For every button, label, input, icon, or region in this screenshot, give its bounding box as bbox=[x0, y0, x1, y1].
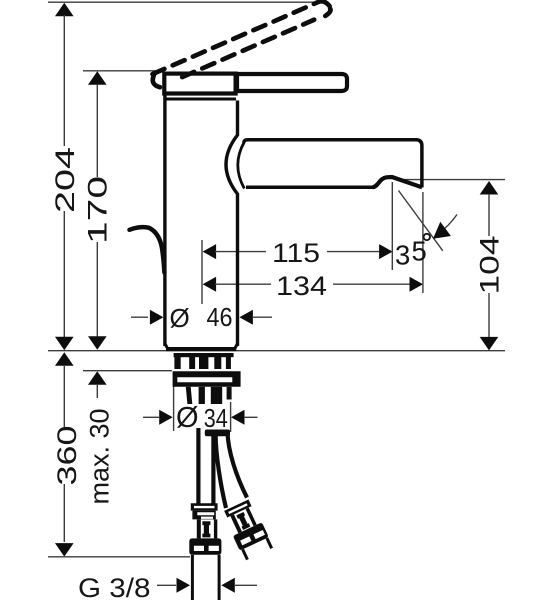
dimension diameter46 arrow right bbox=[239, 310, 253, 325]
base skirt bottom bbox=[166, 347, 236, 351]
angled fitting crimp I bbox=[236, 512, 250, 530]
dimension 115 arrow right bbox=[379, 244, 393, 259]
supply pipe stub 1 bbox=[186, 387, 193, 404]
dimension 204 arrow down bbox=[55, 337, 74, 351]
dimension 115 line left segment bbox=[215, 251, 266, 253]
dimension diameter46 tail left bbox=[131, 316, 148, 318]
angled hose fitting bbox=[222, 498, 274, 561]
hose fitting band B bbox=[192, 511, 215, 520]
vertical hose left edge bbox=[196, 428, 200, 504]
thread mark 3 bbox=[199, 357, 208, 369]
extension line 360 bottom bbox=[48, 556, 190, 558]
svg-text:134: 134 bbox=[276, 271, 327, 301]
dimension 115 line right segment bbox=[327, 251, 379, 253]
dimension 360 line lower segment bbox=[63, 484, 65, 542]
base skirt left bevel bbox=[165, 344, 168, 349]
threaded shank ring bbox=[174, 353, 234, 357]
extension line top bbox=[48, 1, 316, 3]
svg-text:Ø: Ø bbox=[170, 303, 190, 333]
aerator profile bbox=[373, 177, 423, 187]
dimension 204 line upper segment bbox=[63, 15, 65, 146]
dimension 360 line upper segment bbox=[63, 365, 65, 427]
dimension diameter34 arrow left bbox=[159, 410, 173, 425]
supply pipe stub 3 bbox=[211, 387, 222, 404]
dimension 170 line upper segment bbox=[96, 84, 98, 177]
counter line bbox=[48, 350, 166, 352]
spout ball inner arc bbox=[238, 142, 245, 189]
dimension diameter34 tail left bbox=[143, 416, 159, 418]
dimension max30 arrow up bbox=[88, 371, 107, 385]
dimension 204 arrow up bbox=[55, 3, 74, 16]
svg-text:3: 3 bbox=[395, 240, 410, 271]
svg-text:Ø: Ø bbox=[176, 402, 199, 434]
thread mark 2 bbox=[189, 357, 195, 369]
mounting flange bbox=[173, 371, 241, 387]
angled hose line 1 bbox=[216, 434, 226, 508]
dimension max30 line bbox=[96, 384, 98, 398]
dimension 134 line right segment bbox=[333, 283, 410, 285]
dimension diameter46 tail right bbox=[252, 316, 272, 318]
dimension diameter34 arrow right bbox=[231, 410, 245, 425]
extension line max30 bbox=[83, 370, 172, 372]
dimension 204 line lower segment bbox=[63, 211, 65, 338]
dimension 134 arrow left bbox=[203, 277, 217, 292]
angled fitting band A bbox=[224, 500, 251, 518]
extension line 104 top bbox=[397, 179, 505, 181]
angled hose line 2 bbox=[228, 432, 248, 498]
dimension 104 arrow down bbox=[480, 337, 499, 351]
svg-text:G 3/8: G 3/8 bbox=[78, 573, 151, 600]
dimension G38 tail right bbox=[234, 584, 257, 586]
dimension 104 line lower segment bbox=[488, 293, 490, 337]
extension line 170 top bbox=[83, 70, 164, 72]
spout bottom edge bbox=[246, 186, 375, 190]
hose fitting nut right side bbox=[214, 519, 217, 538]
extension line 134 right bbox=[422, 192, 424, 293]
faucet body right edge with ball bulge bbox=[226, 101, 238, 347]
hose fitting band A bbox=[191, 503, 218, 510]
collar ring bbox=[165, 98, 237, 101]
dimension 360 arrow up bbox=[55, 352, 74, 366]
angle 35 leader arrow bbox=[433, 222, 451, 239]
hose elbow stub bbox=[205, 430, 230, 437]
dimension 134 line left segment bbox=[215, 283, 271, 285]
hose end tube right border bbox=[218, 555, 221, 600]
angle 35 leader line bbox=[438, 215, 458, 235]
dimension 170 arrow up bbox=[88, 71, 107, 85]
extension line 115-134 left bbox=[201, 240, 203, 304]
dimension G38 arrow left bbox=[177, 578, 191, 593]
thread mark 4 bbox=[214, 357, 221, 369]
angle 35 degree symbol bbox=[424, 234, 430, 240]
dimension diameter46 arrow left bbox=[150, 310, 164, 325]
dimension 104 arrow up bbox=[480, 181, 499, 195]
angled fitting nut left side bbox=[230, 514, 242, 533]
dimension 115 arrow left bbox=[203, 244, 217, 259]
thread mark 5 bbox=[226, 357, 231, 369]
dimension diameter34 tail right bbox=[244, 416, 258, 418]
supply pipe stub 2 bbox=[199, 387, 205, 404]
svg-text:46: 46 bbox=[207, 304, 233, 332]
svg-text:34: 34 bbox=[204, 405, 228, 433]
extension line 115 right bbox=[391, 182, 393, 270]
spout top and right edge bbox=[244, 140, 422, 188]
handle lever open position dashed bbox=[153, 1, 331, 87]
hose fitting crimp I bbox=[202, 521, 210, 537]
angled fitting nut right side bbox=[246, 507, 257, 526]
faucet body left edge bbox=[163, 96, 166, 347]
handle lever bbox=[237, 74, 347, 91]
svg-text:max. 30: max. 30 bbox=[84, 409, 114, 505]
supply pipe stub 4 bbox=[227, 387, 232, 400]
svg-text:170: 170 bbox=[83, 176, 113, 244]
svg-text:104: 104 bbox=[474, 236, 504, 295]
angled fitting end tube left border bbox=[243, 549, 248, 559]
base skirt right bevel bbox=[235, 344, 238, 349]
angled fitting end collar bbox=[233, 522, 269, 550]
svg-text:204: 204 bbox=[50, 147, 80, 213]
dimension 134 arrow right bbox=[410, 277, 424, 292]
angle 35 slope line bbox=[399, 191, 443, 251]
hose fitting nut left side bbox=[197, 519, 201, 538]
cartridge cap bbox=[164, 74, 235, 94]
thread mark 1 bbox=[174, 357, 180, 369]
extension line diameter34 left bbox=[173, 384, 175, 431]
dimension G38 tail left bbox=[157, 584, 176, 586]
vertical hose right edge bbox=[211, 436, 215, 504]
svg-text:360: 360 bbox=[52, 426, 82, 486]
angled fitting end tube right border bbox=[267, 538, 272, 548]
dimension G38 arrow right bbox=[221, 578, 235, 593]
extension line diameter34 right bbox=[230, 402, 232, 432]
dimension 360 arrow down bbox=[55, 543, 74, 557]
dimension 170 arrow down bbox=[88, 336, 107, 350]
dimension 170 line lower segment bbox=[96, 242, 98, 338]
pop-up rod bbox=[130, 227, 165, 272]
svg-text:115: 115 bbox=[272, 238, 320, 268]
dimension 104 line upper segment bbox=[488, 194, 490, 236]
hose end tube left border bbox=[191, 555, 194, 600]
hose fitting end collar bbox=[189, 538, 221, 554]
